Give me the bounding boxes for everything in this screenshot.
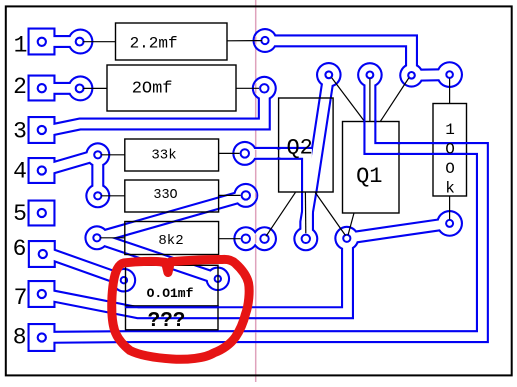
net N10: 33k right pad trace and slanted trace from pad through Q2	[232, 62, 341, 251]
lead Q1 pin2	[369, 79, 371, 122]
svg-text:k: k	[445, 179, 455, 197]
hole top pad c	[408, 72, 415, 79]
hole pad2 round	[76, 85, 84, 93]
resistor 100k outline	[433, 104, 467, 197]
drill holes	[38, 37, 453, 342]
svg-text:8: 8	[13, 324, 27, 350]
svg-text:33k: 33k	[151, 148, 176, 164]
svg-text:6: 6	[13, 236, 27, 262]
hole top pad b	[367, 72, 374, 79]
lead C2 right	[236, 87, 259, 89]
lead C1 left	[83, 41, 116, 43]
page margin guide line	[255, 0, 257, 382]
svg-text:33O: 33O	[153, 188, 177, 203]
svg-text:2: 2	[13, 74, 27, 100]
hole pad1 square	[38, 38, 46, 46]
svg-text:O: O	[445, 140, 455, 158]
net N6: connector pad 6 trace to 0.01mf left pad	[28, 240, 136, 293]
net N9: 2.2mf right pad trace to pads above 100k	[253, 28, 464, 88]
hole pad4 square	[38, 166, 46, 174]
svg-text:???: ???	[148, 310, 186, 333]
hole top pad a	[325, 71, 332, 78]
hole 8k2 right a	[242, 235, 250, 243]
svg-text:2Omf: 2Omf	[132, 80, 173, 99]
transistor Q2 outline	[279, 98, 334, 192]
lead C2 left	[83, 87, 107, 89]
lead Q1 bottom	[348, 213, 354, 235]
net N2: connector pad 2 copper	[28, 75, 94, 102]
hole 0.01mf right	[215, 276, 221, 282]
net N1: connector pad 1 copper	[28, 28, 94, 56]
hole pad3 square	[38, 126, 46, 134]
hole Q2 middle pad	[302, 235, 310, 243]
hole pad6 square	[39, 250, 47, 258]
resistor 33k outline	[125, 139, 219, 171]
lead Q1 pin1	[332, 78, 365, 122]
lead Q2 pin1	[266, 192, 295, 236]
svg-text:O.O1mf: O.O1mf	[147, 286, 194, 301]
hole 20mf right	[260, 84, 268, 92]
hole pad7 square	[38, 290, 46, 298]
net N3: connector pad 3 trace to 20mf right pad	[28, 76, 277, 144]
svg-text:5: 5	[13, 201, 27, 227]
hole pad5 square	[38, 209, 46, 217]
hole 8k2 left	[93, 234, 100, 241]
svg-text:Q1: Q1	[356, 164, 382, 189]
capacitor C1 2.2mf outline	[116, 23, 228, 60]
hole 8k2 right b	[260, 235, 268, 243]
svg-text:2.2mf: 2.2mf	[130, 34, 178, 52]
transistor Q1 outline	[343, 122, 400, 214]
net N4: connector pad 4 trace to 33k/330 left pads	[28, 142, 111, 208]
red annotation circle around unknown component	[112, 259, 249, 359]
resistor 330 outline	[125, 180, 219, 212]
hole 100k bottom pad	[446, 220, 453, 227]
lead Q2 pin2	[304, 192, 306, 233]
net N7: connector pad 7 trace to pad below Q1 and pad below 100k	[28, 210, 464, 313]
net N11: 330 right pad diagonal to 8k2 left pad diagonal to 0.01mf right pad	[84, 183, 258, 291]
lead 33k right	[219, 152, 240, 154]
hole pad2 square	[38, 84, 46, 92]
hole 0.01mf left	[121, 277, 127, 283]
hole 33k left	[94, 151, 101, 158]
hole pad1 round	[76, 38, 84, 46]
hole Q1 bottom pad	[343, 235, 350, 242]
svg-text:O: O	[445, 160, 455, 178]
unknown component ??? outline	[126, 306, 219, 330]
svg-text:Q2: Q2	[286, 136, 312, 161]
lead 100k top	[449, 79, 451, 104]
svg-text:7: 7	[14, 285, 28, 311]
hole 33k right	[241, 149, 249, 157]
hole pad8 square	[38, 333, 46, 341]
svg-text:1: 1	[445, 121, 455, 139]
lead Q1 pin3	[380, 78, 409, 122]
svg-text:1: 1	[14, 32, 28, 58]
hole 100k top pad	[446, 71, 453, 78]
lead C1 right	[227, 40, 262, 42]
pink guide line segments visible through trace interiors	[255, 36, 257, 341]
lead Q2 pin3	[315, 192, 345, 235]
lead 8k2 left	[100, 237, 125, 239]
net N12: 8k2 right pad pair	[233, 226, 277, 251]
hole 330 left	[94, 192, 101, 199]
svg-text:3: 3	[13, 119, 27, 145]
capacitor 0.01mf outline	[126, 265, 219, 306]
copper edge segments redrawn over silkscreen lines	[125, 120, 468, 307]
lead 100k bottom	[449, 196, 451, 220]
lead 8k2 right	[219, 238, 241, 240]
net N5: connector pad 5 (isolated)	[28, 200, 56, 227]
capacitor C2 20mf outline	[107, 65, 236, 111]
resistor 8k2 outline	[125, 222, 219, 255]
hole 2.2mf right	[261, 37, 268, 44]
net N8: connector pad 8 trace around right edge up to pad above Q1	[28, 62, 483, 352]
hole 330 right	[242, 191, 250, 199]
svg-text:8k2: 8k2	[158, 233, 183, 249]
lead 330 left	[101, 195, 125, 197]
component outlines and leads (black)	[83, 23, 467, 330]
lead 330 right	[219, 194, 241, 196]
lead 33k left	[101, 154, 125, 156]
svg-text:4: 4	[13, 159, 27, 185]
